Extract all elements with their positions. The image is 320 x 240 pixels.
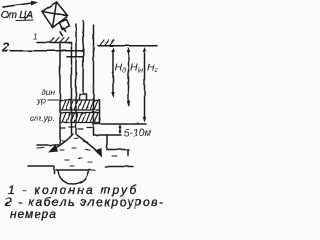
dimension arrow Hc [143,47,146,123]
flow dashes below pump [60,28,66,36]
svg-text:От ЦА: От ЦА [1,10,33,21]
sump bowl arc [58,171,89,185]
lower right shoe line [94,134,122,136]
static level hatch band [60,113,100,123]
left flow arrow [48,134,73,153]
sump bottom line [56,169,91,171]
upper right level line [94,123,146,125]
level sensor box [80,94,87,100]
ground hatching left [50,38,69,43]
right step wall [106,135,108,149]
dimension arrow Hd [111,47,114,98]
label От ЦА [1,10,33,21]
leader line 2 (cable feed) [11,50,84,52]
svg-text:5-10м: 5-10м [124,127,152,139]
svg-text:Hін: Hін [130,62,143,75]
cable down the well [82,21,85,94]
right flow arrow [77,135,102,158]
right upper ledge [107,149,129,151]
pump unit icon (tilted box with X) [42,2,70,29]
right lower ledge [105,166,133,168]
tubing column line left [71,43,73,135]
ground hatching right [100,40,114,45]
leader line 1 (ground left) [37,42,72,44]
dynamic level hatch band [60,100,100,110]
ground line right [98,45,157,47]
dimension arrow Hin [127,47,130,107]
tubing column line right [75,24,77,134]
svg-text:2: 2 [1,40,10,55]
svg-text:ст.ур.: ст.ур. [30,113,55,123]
water dashes below static band [60,127,92,129]
casing right wall [93,25,95,135]
arrow from CA [3,1,38,7]
svg-text:Hс: Hс [147,62,159,75]
label дин ур [36,87,60,106]
band right edge [99,100,101,124]
left pit wall [53,167,55,174]
casing left wall [59,44,61,144]
5-10m dimension [118,124,151,139]
svg-text:ур: ур [36,96,46,106]
right pit wall stub [127,150,129,156]
wellhead flange line [67,56,84,58]
svg-text:1: 1 [33,33,37,42]
svg-text:Hд: Hд [115,62,127,75]
svg-text:немера: немера [10,207,57,221]
falling water dashes [37,138,117,171]
left upper ledge [37,144,60,146]
left lower ledge [28,165,54,167]
